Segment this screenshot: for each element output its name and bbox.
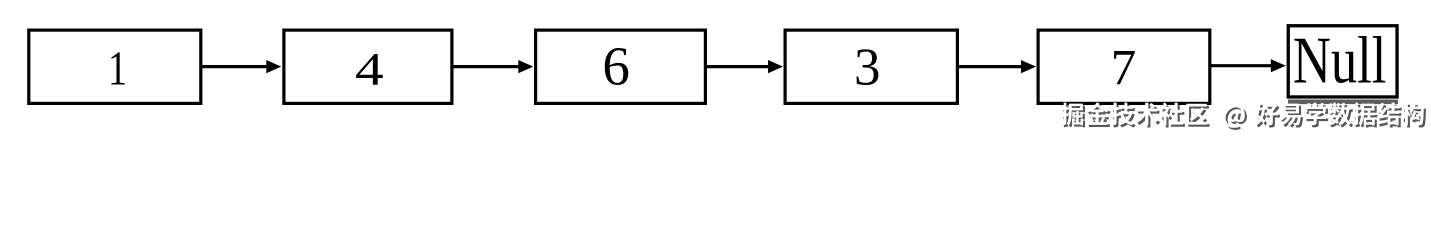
svg-text:1: 1 — [108, 41, 127, 96]
svg-text:6: 6 — [602, 36, 630, 97]
svg-text:7: 7 — [1111, 41, 1137, 97]
node box 3 — [785, 30, 957, 103]
arrow 5 — [1210, 64, 1272, 67]
svg-text:Null: Null — [1293, 24, 1387, 97]
node box 4 — [284, 30, 452, 103]
node box 7 — [1038, 30, 1210, 103]
svg-text:4: 4 — [355, 43, 384, 95]
watermark outline — [1061, 102, 1424, 127]
watermark shadow — [1063, 104, 1426, 129]
arrow 4 — [958, 65, 1023, 68]
node box 6 — [536, 30, 706, 103]
arrow 2 — [453, 65, 521, 68]
node box 1 — [29, 30, 201, 103]
compression ringing band under Null box — [1288, 100, 1398, 105]
arrow 3 — [706, 65, 770, 68]
svg-text:3: 3 — [854, 39, 881, 97]
watermark text — [1061, 102, 1424, 127]
Null box — [1288, 26, 1397, 97]
arrow 1 — [201, 65, 268, 68]
